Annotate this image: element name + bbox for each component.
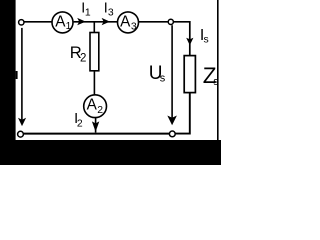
svg-text:3: 3 xyxy=(108,8,114,19)
bottom wire: terminal to node xyxy=(24,133,170,135)
svg-text:s: s xyxy=(160,73,166,85)
node circle top (Us+) xyxy=(168,19,173,24)
wire: junction to R2 xyxy=(93,22,95,33)
scan black bar bottom xyxy=(0,140,221,165)
wire: A1 to A3 xyxy=(74,21,118,23)
current arrow I1 xyxy=(77,18,86,25)
svg-text:A: A xyxy=(87,97,98,114)
svg-text:A: A xyxy=(55,14,66,31)
svg-text:1: 1 xyxy=(85,7,91,18)
label R2 xyxy=(70,43,87,65)
label I1 xyxy=(81,0,91,18)
node circle bottom (Us-) xyxy=(169,131,175,137)
svg-text:A: A xyxy=(120,14,131,31)
wire: A3 to node xyxy=(139,21,168,23)
svg-text:s: s xyxy=(213,76,219,88)
terminal circle bottom-left xyxy=(18,131,24,137)
terminal circle top-left xyxy=(19,20,24,25)
wire top segment: terminal to A1 xyxy=(24,21,52,23)
label I2 xyxy=(74,111,83,130)
scan black bar left xyxy=(0,0,16,165)
wire: node to top-right corner, down to Zs xyxy=(174,22,190,56)
svg-text:1: 1 xyxy=(66,21,72,32)
label Us xyxy=(149,63,166,85)
wire: Zs to bottom wire xyxy=(175,93,190,134)
svg-text:2: 2 xyxy=(97,105,103,116)
label Is xyxy=(200,27,209,46)
wire: R2 to A2 xyxy=(93,71,95,96)
svg-text:2: 2 xyxy=(77,119,83,130)
ammeter A2 xyxy=(84,95,107,118)
label I3 xyxy=(104,0,114,18)
wire: A2 to bottom xyxy=(95,118,97,133)
svg-text:s: s xyxy=(204,35,209,46)
current arrow I2 head xyxy=(92,121,99,131)
svg-text:2: 2 xyxy=(80,53,86,65)
label Zs xyxy=(203,63,220,88)
svg-text:3: 3 xyxy=(131,22,137,33)
current arrow I3 xyxy=(102,18,110,25)
left voltage arrow line (U) xyxy=(21,28,23,120)
ammeter A3 xyxy=(118,12,139,33)
left voltage arrow head xyxy=(18,118,26,126)
voltage arrow Us head xyxy=(167,116,177,126)
resistor R2 box xyxy=(90,33,99,71)
current arrow Is xyxy=(186,38,193,46)
voltage arrow Us line xyxy=(171,25,173,118)
right border line xyxy=(217,0,219,141)
ammeter A1 xyxy=(52,12,73,33)
impedance Zs box xyxy=(184,56,195,93)
cropped letter remnant on left bar xyxy=(16,71,18,79)
